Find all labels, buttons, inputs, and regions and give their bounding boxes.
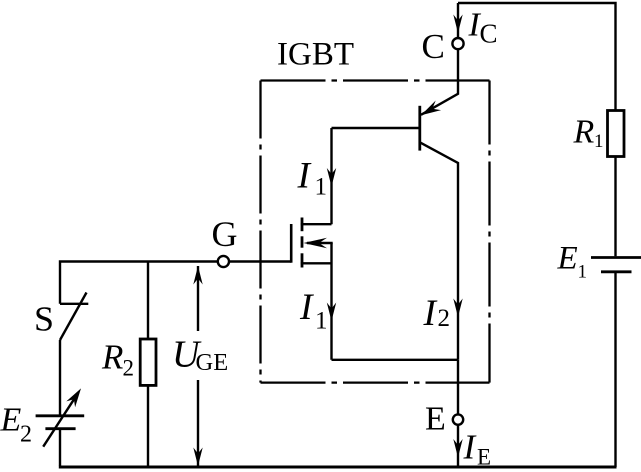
svg-text:E: E: [425, 401, 446, 438]
svg-text:C: C: [422, 27, 445, 66]
svg-text:E: E: [477, 445, 491, 470]
svg-text:GE: GE: [196, 349, 229, 376]
svg-text:I: I: [423, 293, 438, 334]
svg-text:C: C: [480, 19, 498, 49]
svg-text:E: E: [557, 241, 578, 277]
svg-text:2: 2: [438, 305, 451, 332]
svg-text:I: I: [299, 287, 314, 328]
svg-text:IGBT: IGBT: [277, 37, 354, 73]
svg-text:1: 1: [594, 131, 604, 152]
svg-text:1: 1: [578, 262, 588, 283]
svg-text:1: 1: [315, 308, 328, 335]
svg-text:1: 1: [315, 174, 328, 201]
svg-text:2: 2: [20, 422, 32, 448]
svg-text:2: 2: [123, 356, 135, 381]
svg-text:S: S: [34, 300, 54, 339]
svg-text:E: E: [0, 402, 22, 439]
svg-text:R: R: [573, 114, 595, 151]
svg-text:I: I: [297, 156, 312, 197]
svg-text:G: G: [212, 214, 238, 254]
svg-text:R: R: [101, 338, 123, 377]
